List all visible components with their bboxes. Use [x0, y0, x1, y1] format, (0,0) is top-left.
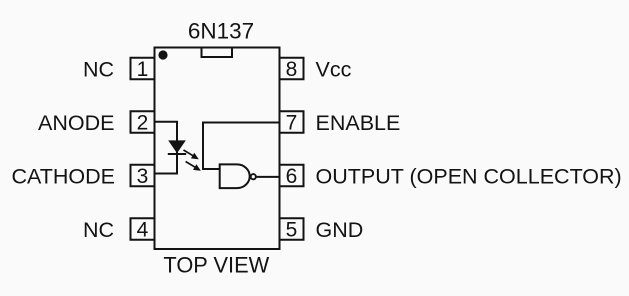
svg-text:4: 4: [137, 219, 149, 242]
svg-text:TOP VIEW: TOP VIEW: [163, 252, 269, 277]
svg-text:3: 3: [137, 165, 149, 188]
svg-text:5: 5: [286, 219, 298, 242]
svg-text:1: 1: [137, 58, 149, 81]
svg-text:6: 6: [286, 165, 298, 188]
svg-text:ENABLE: ENABLE: [316, 111, 401, 135]
svg-text:7: 7: [286, 112, 298, 135]
svg-text:NC: NC: [83, 57, 114, 81]
svg-text:ANODE: ANODE: [38, 111, 114, 135]
svg-text:Vcc: Vcc: [316, 57, 352, 81]
svg-text:GND: GND: [316, 218, 364, 242]
svg-text:OUTPUT (OPEN COLLECTOR): OUTPUT (OPEN COLLECTOR): [316, 164, 622, 188]
svg-text:CATHODE: CATHODE: [11, 164, 115, 188]
svg-text:6N137: 6N137: [188, 19, 254, 44]
svg-text:2: 2: [137, 112, 149, 135]
svg-text:NC: NC: [83, 218, 114, 242]
svg-text:8: 8: [286, 58, 298, 81]
